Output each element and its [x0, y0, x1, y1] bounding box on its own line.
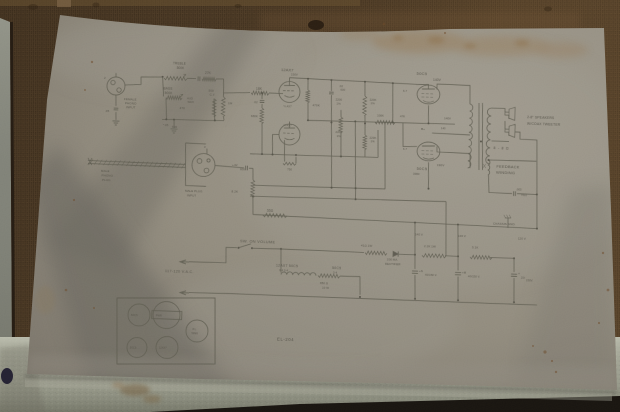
socket 12AX7	[156, 336, 179, 359]
wire 385 col up	[383, 122, 388, 189]
label heater tubes	[276, 264, 342, 271]
rail mid 156	[250, 152, 378, 159]
node filter out	[490, 256, 515, 259]
wire B+ center tap	[421, 125, 470, 135]
capacitor C4 .02/600	[328, 80, 346, 124]
node mid row 2	[392, 121, 394, 123]
transformer T1 secondary	[486, 108, 492, 164]
resistor R20 5.1K	[470, 245, 492, 259]
label speakers	[527, 115, 561, 127]
tube V2 50C5 upper	[403, 71, 442, 105]
bottom edge curl shade	[27, 354, 617, 390]
label 140V b	[458, 234, 467, 238]
resistor R19 2.2K 1W	[422, 244, 446, 258]
resistor R12 220K 1W upper	[362, 82, 377, 125]
wire 378 col	[377, 130, 379, 157]
speaker SP1	[505, 107, 515, 120]
node A tone input junction	[162, 76, 164, 78]
transformer T1 core	[477, 103, 485, 170]
resistor R13 220K 1W lower	[362, 123, 367, 157]
label 8-8 ohm	[493, 146, 509, 151]
wire hot to switch	[189, 246, 237, 263]
push pin bottom left	[1, 368, 13, 384]
wire filter out down	[513, 258, 516, 272]
node filter mid	[445, 255, 459, 257]
label sw on volume	[240, 239, 276, 244]
top frame band	[0, 0, 360, 6]
wire filter mid down	[457, 256, 460, 270]
rail power bottom	[226, 291, 537, 305]
wire rect node down	[413, 255, 416, 269]
capacitor C2 .05	[198, 76, 200, 81]
cathode resistor R9 750	[283, 140, 297, 172]
potentiometer R4 BASS 500K	[163, 86, 183, 99]
socket pilot lamp	[186, 320, 209, 343]
wire col 355 down	[353, 121, 359, 199]
wire J1 to tone stack	[125, 76, 162, 87]
diode D1 rectifier	[393, 251, 398, 256]
winding feedback	[483, 160, 490, 175]
socket transformer symbol	[151, 301, 182, 329]
wire bass left leg down	[165, 98, 167, 119]
potentiometer R2 TREBLE 500K	[164, 61, 188, 80]
wire rail to V2 grid	[415, 84, 429, 89]
schematic drawing	[81, 59, 563, 380]
capacitor C6 .005	[513, 187, 527, 197]
wire filter mid up	[457, 225, 459, 257]
wire mid row	[308, 119, 455, 125]
wire switch to rectifier	[252, 248, 364, 253]
dark under-ledge strip	[150, 396, 620, 412]
node on B+ rail 3	[364, 81, 366, 83]
tube V1A 12AX7 triode	[278, 67, 300, 109]
capacitor C7 40/150	[411, 269, 437, 300]
node on B+ rail 4	[392, 82, 394, 84]
wire feedback to cap	[486, 159, 536, 194]
shielded cable	[88, 158, 186, 169]
wire secondary top to speakers	[491, 108, 505, 112]
shadow on ledge below paper	[25, 375, 617, 395]
ac plug arrow hot	[180, 260, 189, 264]
speaker SP2	[505, 124, 515, 137]
capacitor C8 40/150	[454, 270, 480, 301]
ground at input	[112, 112, 119, 125]
wire bus down to gnd rail	[173, 120, 176, 128]
resistor R7 18K	[251, 86, 269, 95]
resistor R11 2200 1%	[334, 97, 344, 156]
node mid row	[354, 120, 356, 122]
connector J1 female phono input	[103, 73, 138, 115]
rail feedback	[253, 214, 537, 228]
resistor R10 470K plate load	[305, 79, 321, 122]
label feedback winding	[496, 164, 520, 176]
socket 50C5 bottom	[127, 337, 148, 358]
label 220K lower	[369, 135, 376, 143]
tube V3 50C5 lower	[402, 141, 445, 176]
wire cap to return	[517, 193, 538, 196]
tube V1B 12AX7 triode	[279, 121, 301, 145]
wire speakers series	[480, 120, 510, 143]
node on B+ rail 2	[330, 79, 332, 81]
title EL-204	[277, 336, 294, 342]
rail B+ top	[289, 78, 415, 85]
wire treble to C2	[187, 77, 196, 80]
resistor R3 27K	[202, 71, 216, 81]
resistor R15 8.2K	[231, 168, 255, 215]
label bass wax	[187, 97, 194, 105]
label heater pins	[279, 268, 338, 275]
chassis ground symbol	[503, 215, 511, 228]
capacitor C1 at input	[114, 95, 119, 110]
label male plug input	[185, 189, 203, 198]
resistor R18 41 ohm 1W	[361, 243, 388, 255]
wire heater return	[339, 276, 360, 295]
wire speakers return	[512, 132, 541, 229]
stains bottom left ledge	[35, 286, 161, 403]
label 2200 second	[335, 130, 342, 138]
wire V2 plate to OT	[436, 84, 470, 104]
label male phono plug	[101, 169, 114, 182]
wire input node down to bass	[162, 77, 164, 97]
node chassis rail end	[536, 228, 538, 230]
label .05 600	[163, 123, 178, 129]
ground tone stack	[170, 129, 177, 133]
cork light patch above paper edge right	[260, 12, 580, 30]
ac plug arrow neutral	[180, 291, 189, 295]
label line voltage	[165, 269, 194, 274]
resistor R16 55 ohm	[263, 208, 287, 217]
small rust specks	[65, 23, 610, 373]
node rect out	[399, 253, 416, 256]
label 140V a	[415, 233, 424, 237]
cork knots top	[28, 3, 552, 12]
resistor R5 500 CY	[208, 89, 217, 120]
tone stack bottom bus	[162, 118, 224, 123]
node feedback right	[414, 221, 459, 225]
capacitor C5 .02/600	[215, 162, 253, 171]
connector J2 male plug	[184, 143, 216, 187]
node on B+ rail 1	[307, 78, 309, 80]
wire rect node up	[414, 223, 416, 255]
wire 18K to V1 grid	[269, 92, 283, 95]
wire V2 cathode	[427, 105, 430, 124]
ledge at bottom	[0, 337, 620, 412]
label 470	[179, 106, 185, 110]
resistor R17 850 ohm 10W	[318, 274, 341, 290]
rust stains top	[340, 27, 588, 58]
wire B+ node down	[391, 83, 394, 122]
capacitor C3 .02 grid	[253, 93, 264, 105]
tube layout box	[115, 295, 218, 368]
socket 50C5 top left	[128, 304, 151, 327]
label 120V	[518, 237, 527, 241]
right portion slight shade	[515, 185, 615, 390]
wire neutral to rail	[189, 292, 226, 294]
diagonal shadow band on paper	[46, 15, 270, 276]
wire C4 column down	[329, 122, 334, 188]
wire V1B grid	[272, 134, 279, 155]
label chassis gnd	[493, 221, 516, 226]
wire to 18K	[224, 92, 250, 94]
wire V3 cathode	[427, 162, 430, 189]
transformer T1 primary	[468, 104, 474, 168]
node heater tap	[280, 248, 282, 250]
wire V3 plate to OT	[436, 146, 470, 168]
label rectifier	[385, 257, 401, 266]
label 140V mid	[444, 116, 451, 120]
resistor R8 680K	[250, 92, 265, 154]
resistor R6 1M	[221, 79, 234, 121]
wire heater drop	[280, 249, 282, 273]
switch S1	[237, 243, 253, 249]
rail mid 200	[250, 195, 446, 204]
rail mid 188	[253, 184, 385, 191]
resistor R14 100K	[375, 113, 405, 125]
bright lip of ledge below paper	[25, 378, 612, 401]
wire 446 down	[444, 202, 448, 256]
wire 27K to 1M column	[216, 78, 224, 81]
wire mid row to V3 grid	[402, 123, 418, 147]
capacitor C9 20/150	[510, 272, 534, 303]
heater filaments	[281, 272, 316, 276]
push pin top center	[308, 20, 324, 30]
left wall strip	[0, 18, 12, 348]
